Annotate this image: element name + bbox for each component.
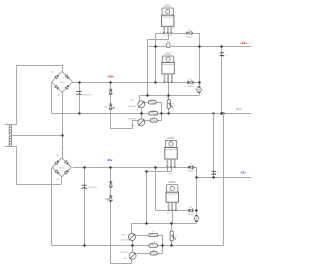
svg-text:1N4007: 1N4007 [59, 168, 64, 170]
svg-text:1N4007: 1N4007 [59, 82, 64, 84]
svg-text:100k/1W: 100k/1W [121, 240, 129, 242]
svg-text:s: s [7, 123, 8, 125]
svg-text:LM337: LM337 [169, 181, 177, 184]
svg-text:4700u/35v: 4700u/35v [82, 94, 91, 96]
svg-text:LM317: LM317 [164, 53, 172, 56]
svg-text:+26v: +26v [107, 75, 114, 79]
svg-text:LM337: LM337 [167, 137, 175, 140]
svg-text:1N4007: 1N4007 [188, 171, 195, 173]
svg-text:D2: D2 [189, 79, 191, 81]
svg-text:ADJ: ADJ [167, 96, 171, 99]
svg-text:1k: 1k [153, 117, 155, 119]
svg-text:1u: 1u [217, 172, 219, 174]
svg-text:10k: 10k [131, 125, 134, 127]
svg-text:1k: 1k [152, 232, 154, 234]
svg-text:100k/1W: 100k/1W [128, 118, 136, 120]
svg-text:100k/1W: 100k/1W [128, 106, 136, 108]
svg-text:4700u/35v: 4700u/35v [88, 187, 97, 189]
svg-text:D5: D5 [188, 29, 190, 31]
svg-text:1N4007: 1N4007 [186, 36, 193, 38]
svg-text:-23v: -23v [240, 170, 246, 174]
svg-text:ADJ: ADJ [169, 173, 173, 176]
svg-text:5k: 5k [175, 236, 177, 238]
svg-text:1k: 1k [153, 250, 155, 252]
svg-text:ADJ: ADJ [167, 212, 171, 215]
svg-text:10k: 10k [123, 258, 126, 260]
svg-text:LED: LED [104, 198, 108, 200]
svg-text:+23v: +23v [240, 41, 247, 45]
svg-text:LM317: LM317 [164, 4, 172, 7]
svg-text:D8: D8 [190, 207, 192, 209]
svg-text:1u: 1u [225, 55, 227, 57]
svg-text:-26v: -26v [107, 158, 113, 162]
svg-text:D7: D7 [190, 164, 192, 166]
svg-text:1k: 1k [151, 99, 153, 101]
svg-text:Gnd: Gnd [236, 107, 242, 111]
svg-text:5k: 5k [172, 104, 174, 106]
svg-text:1N4007: 1N4007 [187, 86, 194, 88]
svg-text:1N4007: 1N4007 [188, 214, 195, 216]
svg-text:LED: LED [104, 107, 108, 109]
svg-text:R5: R5 [167, 41, 169, 43]
svg-text:100k/1W: 100k/1W [120, 252, 128, 254]
